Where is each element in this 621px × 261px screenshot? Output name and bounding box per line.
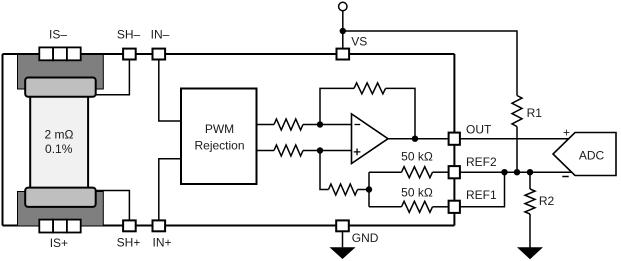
resistor feedback	[354, 83, 386, 94]
wire: non-inverting input to gain resistor	[320, 151, 329, 190]
wire: left vertical rail	[2, 54, 4, 226]
svg-text:50 kΩ: 50 kΩ	[401, 185, 433, 199]
pin IN-	[153, 49, 166, 60]
ADC converter	[553, 133, 616, 176]
node: VS junction	[340, 28, 346, 34]
ground (GND pin)	[330, 247, 356, 259]
wire: to 50k upper	[369, 171, 402, 173]
wire: supply to VS pin	[342, 11, 344, 54]
wire: feedback loop	[320, 88, 354, 124]
node: non-inverting input	[317, 147, 323, 153]
wire: op-amp output to OUT pin	[388, 138, 449, 140]
node: 50k pair junction	[366, 186, 372, 192]
pin VS	[337, 49, 350, 60]
pin SH+	[123, 220, 136, 231]
svg-text:REF1: REF1	[466, 188, 497, 202]
resistor R1	[512, 96, 522, 127]
svg-text:GND: GND	[352, 231, 379, 245]
wire: OUT to ADC plus	[461, 138, 569, 140]
svg-text:OUT: OUT	[466, 123, 492, 137]
wire: IN+ to PWM Rejection	[159, 159, 181, 220]
svg-text:Rejection: Rejection	[194, 138, 244, 152]
svg-text:0.1%: 0.1%	[45, 142, 73, 156]
wire: SH- kelvin sense to top cap	[92, 60, 129, 95]
svg-text:VS: VS	[351, 34, 367, 48]
node: inverting input	[317, 121, 323, 127]
wire: VS feed to R1	[343, 31, 517, 96]
svg-text:IN–: IN–	[151, 27, 170, 41]
wire: IN- to PWM Rejection	[159, 60, 181, 121]
wire: bottom rail from shunt through SH+/IN+/GND to bottom-right corner	[3, 225, 455, 227]
pin IN+	[153, 220, 166, 231]
node: REF1 tie	[501, 169, 507, 175]
node: R2 tie	[527, 169, 533, 175]
svg-text:ADC: ADC	[579, 148, 605, 162]
shunt resistor element body 2mOhm	[30, 90, 88, 190]
node: output/feedback	[412, 136, 418, 142]
node: R1 tie	[514, 169, 520, 175]
resistor gain	[329, 184, 358, 195]
svg-text:IN+: IN+	[152, 236, 171, 250]
svg-text:R1: R1	[527, 106, 543, 120]
supply terminal circle	[339, 2, 347, 10]
svg-text:SH+: SH+	[117, 236, 141, 250]
label minus	[562, 176, 568, 178]
pin REF2	[449, 166, 460, 178]
svg-text:IS–: IS–	[49, 27, 67, 41]
shunt terminal block bottom (IS+)	[18, 192, 104, 227]
svg-text:REF2: REF2	[466, 155, 497, 169]
wire: PWM lower output to op-amp non-inverting input	[257, 150, 275, 152]
op-amp U2	[352, 114, 389, 164]
pin GND	[336, 220, 349, 231]
svg-text:PWM: PWM	[205, 122, 234, 136]
wire: REF1 tie to REF2 node	[461, 172, 505, 207]
shunt end cap top	[25, 78, 96, 97]
solder pads IS+	[39, 220, 53, 233]
wire: REF2 to ADC minus	[461, 171, 572, 173]
wire: to 50k lower	[369, 206, 402, 208]
shunt terminal block top (IS-)	[18, 55, 104, 90]
wire: R1 to REF node (crosses OUT line)	[516, 127, 518, 173]
shunt end cap bottom	[25, 188, 96, 207]
wire: PWM upper output to op-amp inverting input	[257, 124, 275, 126]
svg-text:2 mΩ: 2 mΩ	[45, 128, 74, 142]
wire: gain resistor to 50k pair	[358, 189, 370, 191]
solder pads IS-	[39, 47, 53, 60]
wire: top rail from shunt through SH-/IN-/VS to top-right corner	[3, 53, 455, 55]
pin OUT	[449, 133, 460, 145]
svg-text:R2: R2	[539, 194, 555, 208]
wire: device right edge through OUT/REF2/REF1 pins	[453, 54, 455, 226]
block U1 PWM Rejection	[181, 89, 257, 185]
resistor 50k upper	[402, 167, 433, 178]
wire: GND pin to ground	[342, 232, 344, 248]
pin REF1	[449, 201, 460, 213]
pin SH-	[123, 49, 136, 60]
svg-text:IS+: IS+	[50, 236, 68, 250]
resistor 50k lower	[402, 201, 433, 212]
svg-text:50 kΩ: 50 kΩ	[401, 150, 433, 164]
resistor input lower	[274, 145, 303, 156]
svg-text:SH–: SH–	[117, 27, 141, 41]
resistor input upper	[274, 119, 303, 130]
wire: SH+ kelvin sense to bottom cap	[92, 191, 129, 221]
wire: R2 to ground	[529, 214, 531, 248]
resistor R2	[529, 172, 531, 189]
ground (right)	[517, 247, 543, 259]
svg-text:+: +	[563, 125, 570, 139]
